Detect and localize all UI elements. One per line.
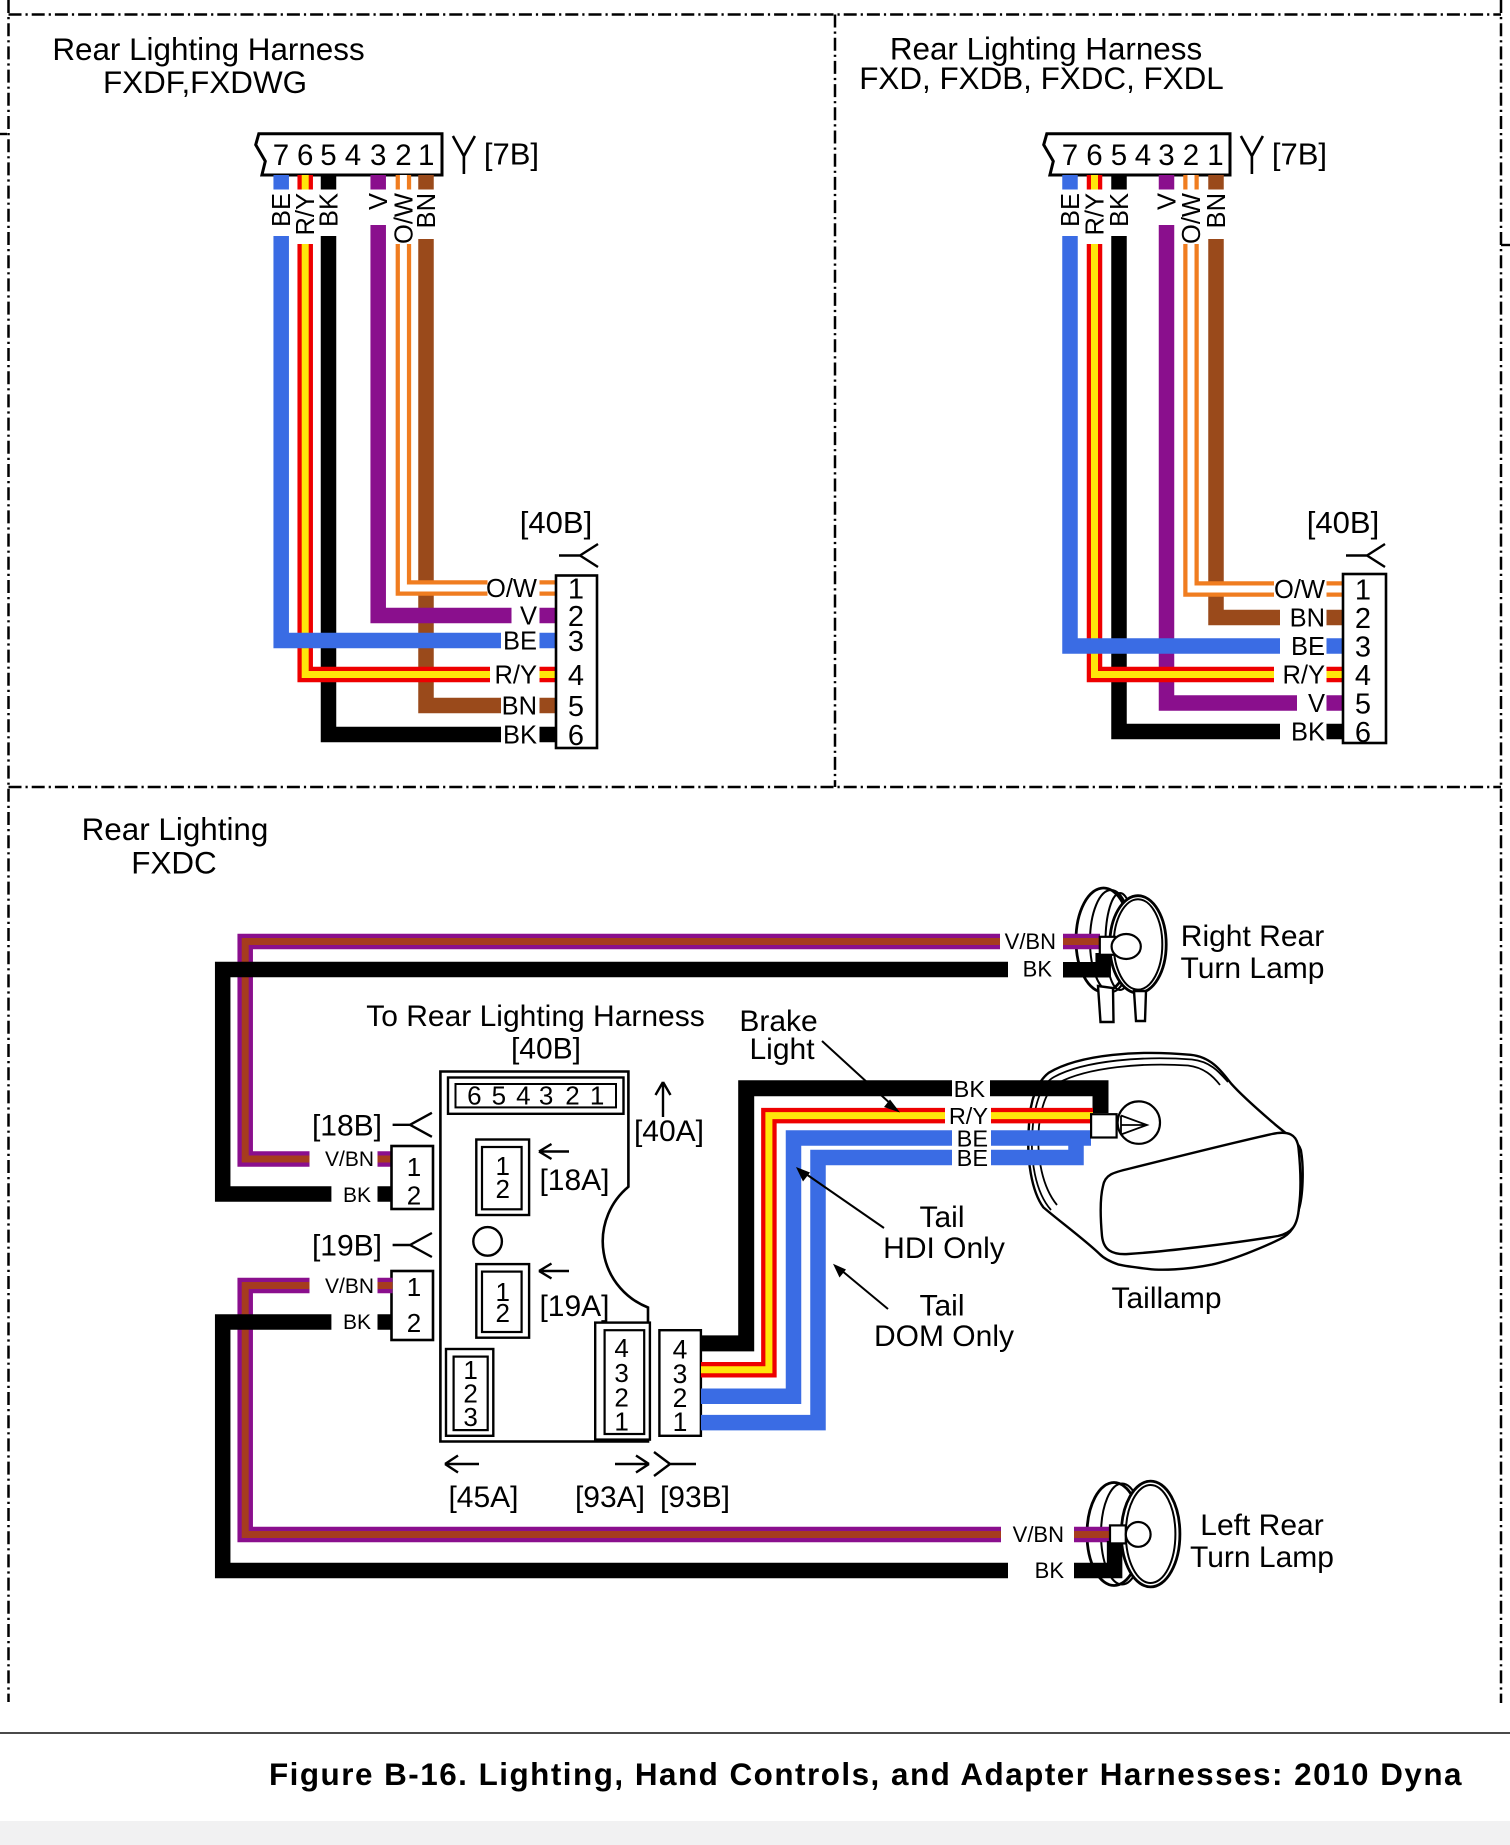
svg-text:Right Rear: Right Rear (1181, 920, 1324, 953)
figure caption (269, 1757, 1463, 1792)
adapter harness block body (440, 1072, 648, 1442)
arrow up at [40A] (656, 1082, 671, 1117)
svg-text:O/W: O/W (1274, 576, 1325, 604)
taillamp bulb (1118, 1101, 1160, 1143)
svg-text:BK: BK (503, 722, 537, 750)
svg-text:2: 2 (407, 1308, 421, 1338)
label [45A] (448, 1481, 518, 1514)
svg-text:5: 5 (492, 1081, 506, 1111)
label Tail DOM Only (874, 1290, 1014, 1354)
wire BK from [7B] to [40B] (FXDF panel) (316, 175, 502, 735)
svg-text:2: 2 (1183, 139, 1199, 172)
frame right dash-dot border (1500, 0, 1503, 1703)
svg-text:Rear Lighting: Rear Lighting (82, 812, 269, 847)
taillamp body (1028, 1053, 1302, 1270)
wire O/W from [7B] to [40B] (FXD panel) (1178, 175, 1274, 589)
svg-text:Figure B-16. Lighting, Hand Co: Figure B-16. Lighting, Hand Controls, an… (269, 1757, 1463, 1792)
svg-text:BE: BE (1291, 633, 1325, 661)
branch symbol at [93B] (654, 1452, 696, 1476)
svg-text:7: 7 (273, 139, 289, 172)
svg-text:V: V (365, 193, 393, 210)
wire R/Y from [7B] to [40B] (FXD panel) (1082, 175, 1275, 675)
wire BN from [7B] to [40B] (FXDF panel) (413, 175, 501, 706)
branch symbol at [40B] FXDF panel (559, 544, 598, 567)
left rear turn lamp body (1087, 1481, 1180, 1587)
label Brake Light (739, 1005, 817, 1066)
svg-text:Tail: Tail (919, 1201, 964, 1234)
branch symbol at [40B] FXD panel (1346, 544, 1385, 567)
svg-text:BK: BK (1291, 719, 1325, 747)
svg-text:FXDC: FXDC (131, 846, 216, 881)
svg-text:BE: BE (503, 628, 537, 656)
svg-text:2: 2 (407, 1181, 421, 1211)
connector [7B] FXDF panel (256, 134, 442, 175)
right rear turn lamp bulb (1112, 934, 1141, 959)
wire BE from [7B] to [40B] (FXDF panel) (268, 175, 501, 641)
svg-text:BK: BK (1106, 193, 1134, 227)
wire R/Y from [7B] to [40B] (FXDF panel) (292, 175, 490, 675)
wire BE tail DOM [93B] pin 1 to taillamp (701, 1140, 1076, 1423)
svg-text:Rear Lighting Harness: Rear Lighting Harness (52, 32, 364, 67)
svg-text:5: 5 (1355, 688, 1371, 720)
svg-text:6: 6 (1355, 717, 1371, 749)
svg-text:V: V (520, 603, 537, 631)
svg-text:BE: BE (957, 1145, 988, 1171)
svg-text:V: V (1308, 690, 1325, 718)
svg-text:HDI Only: HDI Only (883, 1232, 1005, 1265)
svg-text:To Rear Lighting Harness: To Rear Lighting Harness (366, 1000, 705, 1033)
svg-text:R/Y: R/Y (292, 193, 320, 236)
svg-text:R/Y: R/Y (494, 662, 537, 690)
svg-text:3: 3 (370, 139, 386, 172)
svg-text:V/BN: V/BN (325, 1275, 374, 1298)
label To Rear Lighting Harness [40B] (366, 1000, 705, 1066)
svg-text:3: 3 (1158, 139, 1174, 172)
branch symbol Y at [7B] FXD panel (1241, 136, 1263, 174)
connector [19B] (392, 1271, 434, 1340)
right rear turn lamp bracket prongs (1098, 986, 1146, 1022)
svg-text:Taillamp: Taillamp (1111, 1282, 1221, 1315)
connector [40B] FXDF panel (556, 573, 597, 752)
svg-text:1: 1 (1207, 139, 1223, 172)
svg-text:FXDF,FXDWG: FXDF,FXDWG (103, 65, 307, 100)
svg-text:BK: BK (343, 1311, 371, 1334)
svg-text:[7B]: [7B] (1272, 137, 1327, 172)
wire V from [7B] to [40B] (FXD panel) (1154, 175, 1298, 703)
svg-text:[7B]: [7B] (484, 137, 539, 172)
svg-text:4: 4 (1135, 139, 1151, 172)
svg-text:[40B]: [40B] (511, 1033, 581, 1066)
svg-text:4: 4 (516, 1081, 530, 1111)
arrow right at [93A] (615, 1456, 649, 1473)
wire label O/W at [40B] pin 1 (FXD panel) (1274, 576, 1344, 604)
svg-text:6: 6 (568, 720, 584, 752)
wire BN from [7B] to [40B] (FXD panel) (1203, 175, 1280, 618)
wire label V at [40B] pin 2 (FXDF panel) (520, 603, 557, 631)
label [40B] FXDF panel (520, 505, 592, 540)
label [40B] FXD panel (1307, 505, 1379, 540)
svg-text:BN: BN (1290, 605, 1325, 633)
arrow tail DOM to BE wire (833, 1264, 888, 1309)
svg-text:BE: BE (268, 193, 296, 227)
svg-text:BK: BK (343, 1184, 371, 1207)
svg-text:Turn Lamp: Turn Lamp (1181, 952, 1325, 985)
svg-text:2: 2 (495, 1174, 509, 1204)
left rear turn lamp socket (1110, 1525, 1126, 1543)
title Rear Lighting Harness FXDF,FXDWG (52, 32, 364, 100)
right rear turn lamp body (1076, 888, 1166, 993)
frame top dash-dot border (9, 13, 1502, 16)
wire label R/Y at [40B] pin 4 (FXD panel) (1282, 662, 1344, 690)
connector [93B] (659, 1330, 701, 1437)
svg-text:1: 1 (407, 1152, 421, 1182)
svg-text:BE: BE (1057, 193, 1085, 227)
svg-text:BK: BK (1023, 957, 1053, 982)
svg-text:1: 1 (673, 1407, 688, 1437)
tick mark left edge (0, 133, 7, 135)
label [7B] FXDF panel (484, 137, 539, 172)
svg-text:3: 3 (463, 1402, 477, 1432)
tick mark right edge (1501, 244, 1510, 246)
svg-text:[45A]: [45A] (448, 1481, 518, 1514)
footer rule (0, 1732, 1510, 1734)
arrow left at [45A] (445, 1456, 479, 1473)
right rear turn lamp socket (1100, 937, 1115, 955)
wire V from [7B] to [40B] (FXDF panel) (365, 175, 511, 616)
svg-text:BN: BN (1203, 193, 1231, 228)
label [18A] (539, 1164, 609, 1197)
wire BE tail HDI [93B] pin 2 to taillamp (701, 1125, 1091, 1396)
left rear turn lamp bulb (1126, 1522, 1151, 1547)
wire BK left rear turn lamp to [19B] (223, 1311, 1115, 1583)
svg-text:3: 3 (1355, 631, 1371, 663)
connector [93A] (595, 1323, 650, 1440)
arrow tail HDI to BE wire (796, 1167, 884, 1228)
svg-text:1: 1 (590, 1081, 604, 1111)
wire V/BN right rear turn lamp to [18B] (245, 929, 1100, 1171)
label [19B] (312, 1230, 382, 1263)
svg-text:Turn Lamp: Turn Lamp (1190, 1541, 1334, 1574)
svg-text:[93B]: [93B] (660, 1481, 730, 1514)
frame left dash-dot border (7, 0, 10, 1702)
wire BK from [7B] to [40B] (FXD panel) (1106, 175, 1280, 732)
footer gray strip (0, 1821, 1510, 1845)
taillamp socket (1091, 1114, 1117, 1137)
svg-text:7: 7 (1062, 139, 1078, 172)
wire label BE at [40B] pin 3 (FXDF panel) (503, 628, 557, 656)
svg-text:1: 1 (418, 139, 434, 172)
label [18B] (312, 1110, 382, 1143)
svg-text:1: 1 (407, 1272, 421, 1302)
label Left Rear Turn Lamp (1190, 1509, 1334, 1574)
svg-text:[40A]: [40A] (634, 1115, 704, 1148)
wire R/Y brake light [93B] pin 3 to taillamp (701, 1103, 1093, 1370)
wire label BK at [40B] pin 6 (FXD panel) (1291, 719, 1344, 747)
svg-text:1: 1 (614, 1407, 628, 1437)
svg-text:5: 5 (1111, 139, 1127, 172)
svg-text:Light: Light (749, 1033, 815, 1066)
wire label BN at [40B] pin 5 (FXDF panel) (502, 693, 557, 721)
svg-text:5: 5 (568, 691, 584, 723)
wire V/BN left rear turn lamp to [19B] (245, 1275, 1110, 1547)
svg-text:2: 2 (495, 1298, 509, 1328)
svg-text:V/BN: V/BN (1013, 1522, 1064, 1547)
svg-text:O/W: O/W (486, 575, 537, 603)
svg-text:[40B]: [40B] (520, 505, 592, 540)
wire BK [93B] pin 4 to taillamp (701, 1076, 1101, 1344)
wire label BE at [40B] pin 3 (FXD panel) (1291, 633, 1344, 661)
label [40A] (634, 1115, 704, 1148)
wire BE from [7B] to [40B] (FXD panel) (1057, 175, 1280, 646)
svg-text:[19B]: [19B] (312, 1230, 382, 1263)
label [93B] (660, 1481, 730, 1514)
connector [18A] (476, 1140, 529, 1216)
alignment hole circle (473, 1227, 502, 1256)
label [7B] FXD panel (1272, 137, 1327, 172)
svg-text:Left Rear: Left Rear (1200, 1509, 1323, 1542)
connector [40B] FXD panel (1343, 574, 1386, 749)
svg-text:4: 4 (1355, 660, 1371, 692)
svg-text:2: 2 (1355, 603, 1371, 635)
svg-text:R/Y: R/Y (1282, 662, 1325, 690)
svg-text:4: 4 (345, 139, 361, 172)
svg-text:[19A]: [19A] (539, 1290, 609, 1323)
connector [45A] (446, 1349, 493, 1436)
arrow brake light to R/Y wire (822, 1041, 900, 1113)
svg-text:6: 6 (297, 139, 313, 172)
svg-text:V/BN: V/BN (1005, 929, 1056, 954)
connector [7B] FXD panel (1044, 134, 1230, 175)
svg-text:6: 6 (1086, 139, 1102, 172)
svg-text:[18A]: [18A] (539, 1164, 609, 1197)
svg-text:1: 1 (1355, 574, 1371, 606)
wire label R/Y at [40B] pin 4 (FXDF panel) (494, 662, 557, 690)
svg-text:BK: BK (954, 1076, 986, 1102)
connector [19A] (476, 1264, 529, 1338)
label [19A] (539, 1290, 609, 1323)
title Rear Lighting Harness FXD, FXDB, FXDC, FXDL (859, 32, 1224, 97)
svg-text:5: 5 (320, 139, 336, 172)
svg-text:3: 3 (539, 1081, 553, 1111)
svg-text:R/Y: R/Y (1082, 193, 1110, 236)
title Rear Lighting FXDC (82, 812, 269, 881)
label Tail HDI Only (883, 1201, 1005, 1265)
svg-text:BN: BN (502, 693, 537, 721)
wire label V at [40B] pin 5 (FXD panel) (1308, 690, 1344, 718)
branch symbol at [18B] (393, 1113, 432, 1137)
connector [40B] pin strip 6 5 4 3 2 1 (448, 1078, 624, 1114)
frame divider vertical between top panels (834, 15, 837, 788)
svg-text:BK: BK (1035, 1558, 1065, 1583)
svg-text:3: 3 (568, 626, 584, 658)
svg-text:FXD, FXDB, FXDC, FXDL: FXD, FXDB, FXDC, FXDL (859, 61, 1224, 96)
svg-text:O/W: O/W (1178, 193, 1206, 244)
svg-text:2: 2 (395, 139, 411, 172)
connector [18B] (392, 1146, 434, 1211)
arrow at [19A] (539, 1264, 569, 1279)
svg-text:V/BN: V/BN (325, 1148, 374, 1171)
wire BK right rear turn lamp to [18B] (223, 953, 1103, 1207)
label Taillamp (1111, 1282, 1221, 1315)
svg-text:DOM Only: DOM Only (874, 1320, 1014, 1353)
arrow at [18A] (539, 1144, 569, 1159)
svg-text:O/W: O/W (390, 193, 418, 244)
frame divider horizontal between top and bottom panels (9, 786, 1502, 789)
wire label O/W at [40B] pin 1 (FXDF panel) (486, 575, 557, 603)
wire label BK at [40B] pin 6 (FXDF panel) (503, 722, 557, 750)
svg-text:[40B]: [40B] (1307, 505, 1379, 540)
label Right Rear Turn Lamp (1181, 920, 1325, 985)
label [93A] (575, 1481, 645, 1514)
svg-text:[93A]: [93A] (575, 1481, 645, 1514)
svg-text:6: 6 (467, 1081, 481, 1111)
branch symbol at [19B] (393, 1233, 432, 1257)
svg-text:4: 4 (568, 660, 584, 692)
wire O/W from [7B] to [40B] (FXDF panel) (390, 175, 487, 588)
wire label BN at [40B] pin 2 (FXD panel) (1290, 605, 1344, 633)
svg-text:2: 2 (565, 1081, 579, 1111)
svg-text:Tail: Tail (919, 1290, 964, 1323)
branch symbol Y at [7B] FXDF panel (453, 136, 475, 174)
svg-text:[18B]: [18B] (312, 1110, 382, 1143)
